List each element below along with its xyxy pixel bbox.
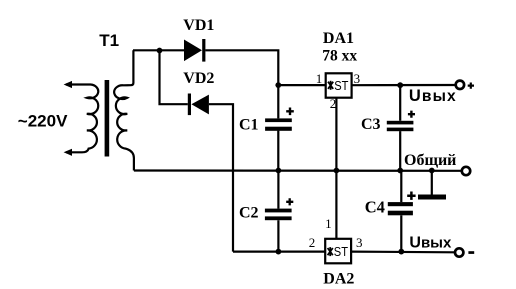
svg-text:DA1: DA1 xyxy=(323,30,354,47)
label + at terminal xyxy=(468,83,474,89)
svg-text:78 xx: 78 xx xyxy=(322,47,357,64)
svg-text:VD1: VD1 xyxy=(183,17,214,34)
plus polarity mark C3 xyxy=(408,111,415,118)
wire positive rail to DA1 pin1 xyxy=(278,84,325,86)
wire common rail xyxy=(134,169,462,172)
svg-text:DA2: DA2 xyxy=(323,271,354,288)
svg-text:Общий: Общий xyxy=(404,152,456,169)
svg-text:2: 2 xyxy=(309,235,316,250)
wire negative rail VD2 to DA2 pin2 xyxy=(233,251,325,253)
node A junction dot xyxy=(157,48,163,54)
wire node A down to VD2 cathode xyxy=(160,50,188,104)
node G junction dot ground/common xyxy=(429,168,435,174)
DA1 star symbol xyxy=(328,81,333,90)
wire VD1 cathode right then down to positive rail xyxy=(205,50,278,85)
terminal - output circle xyxy=(455,248,463,256)
svg-text:C2: C2 xyxy=(239,205,259,222)
svg-text:C1: C1 xyxy=(239,116,259,133)
diode VD1 xyxy=(184,40,202,62)
svg-text:3: 3 xyxy=(356,235,363,250)
transformer T1 secondary winding with leads xyxy=(114,50,134,170)
ground symbol bar xyxy=(418,195,446,200)
svg-text:VD2: VD2 xyxy=(183,70,214,87)
capacitor C2 xyxy=(265,209,292,213)
plus polarity mark C1 xyxy=(286,108,294,116)
voltage regulator DA1 (78xx) box xyxy=(326,73,352,97)
svg-text:2: 2 xyxy=(330,96,337,111)
wire DA2 pin3 to - terminal xyxy=(351,251,455,254)
svg-text:ST: ST xyxy=(334,78,348,93)
ground stub wire xyxy=(431,171,433,196)
primary top arrow xyxy=(64,81,72,88)
node C junction dot DA1 output xyxy=(397,82,403,88)
plus polarity mark C4 xyxy=(407,192,415,200)
primary bottom arrow xyxy=(64,149,72,156)
svg-text:Uвых: Uвых xyxy=(409,87,457,105)
label - at terminal xyxy=(468,251,474,254)
node I junction dot C4/negative xyxy=(398,249,404,255)
svg-text:3: 3 xyxy=(354,71,361,86)
wire VD2 anode right then down to negative rail xyxy=(209,104,233,251)
svg-text:C3: C3 xyxy=(361,116,381,133)
voltage regulator DA2 box xyxy=(325,239,351,263)
DA2 star symbol xyxy=(328,247,333,256)
wire DA1 pin3 to + terminal xyxy=(352,84,456,86)
node H junction dot C2/negative xyxy=(276,249,282,255)
wire C4 string vertical xyxy=(400,171,402,252)
svg-text:ST: ST xyxy=(334,244,348,259)
wire C2 string vertical xyxy=(277,171,279,252)
transformer T1 core xyxy=(105,80,110,157)
svg-text:1: 1 xyxy=(316,71,323,86)
svg-text:Uвых: Uвых xyxy=(409,235,452,252)
wire C3 string vertical xyxy=(399,85,401,170)
svg-text:T1: T1 xyxy=(99,31,119,50)
plus polarity mark C2 xyxy=(286,198,293,205)
wire C1 string vertical xyxy=(277,85,279,170)
node B junction dot positive rail xyxy=(275,82,281,88)
svg-text:~220V: ~220V xyxy=(18,111,68,130)
terminal + output circle xyxy=(456,81,464,89)
capacitor C3 xyxy=(387,121,414,125)
wire secondary top to VD1 anode xyxy=(133,49,184,51)
terminal common circle xyxy=(462,167,470,175)
capacitor C1 xyxy=(265,118,292,122)
node E junction dot C3/common xyxy=(397,168,403,174)
svg-text:1: 1 xyxy=(325,216,332,231)
diode VD2 xyxy=(188,94,191,116)
svg-text:C4: C4 xyxy=(365,198,385,217)
capacitor C4 xyxy=(388,202,413,206)
node D junction dot C1/common xyxy=(276,168,282,174)
node F junction dot DA stack/common xyxy=(334,168,340,174)
wire DA1 pin2 to common rail to DA2 pin1 xyxy=(335,98,337,239)
transformer T1 primary winding with top/bottom leads xyxy=(66,85,98,153)
